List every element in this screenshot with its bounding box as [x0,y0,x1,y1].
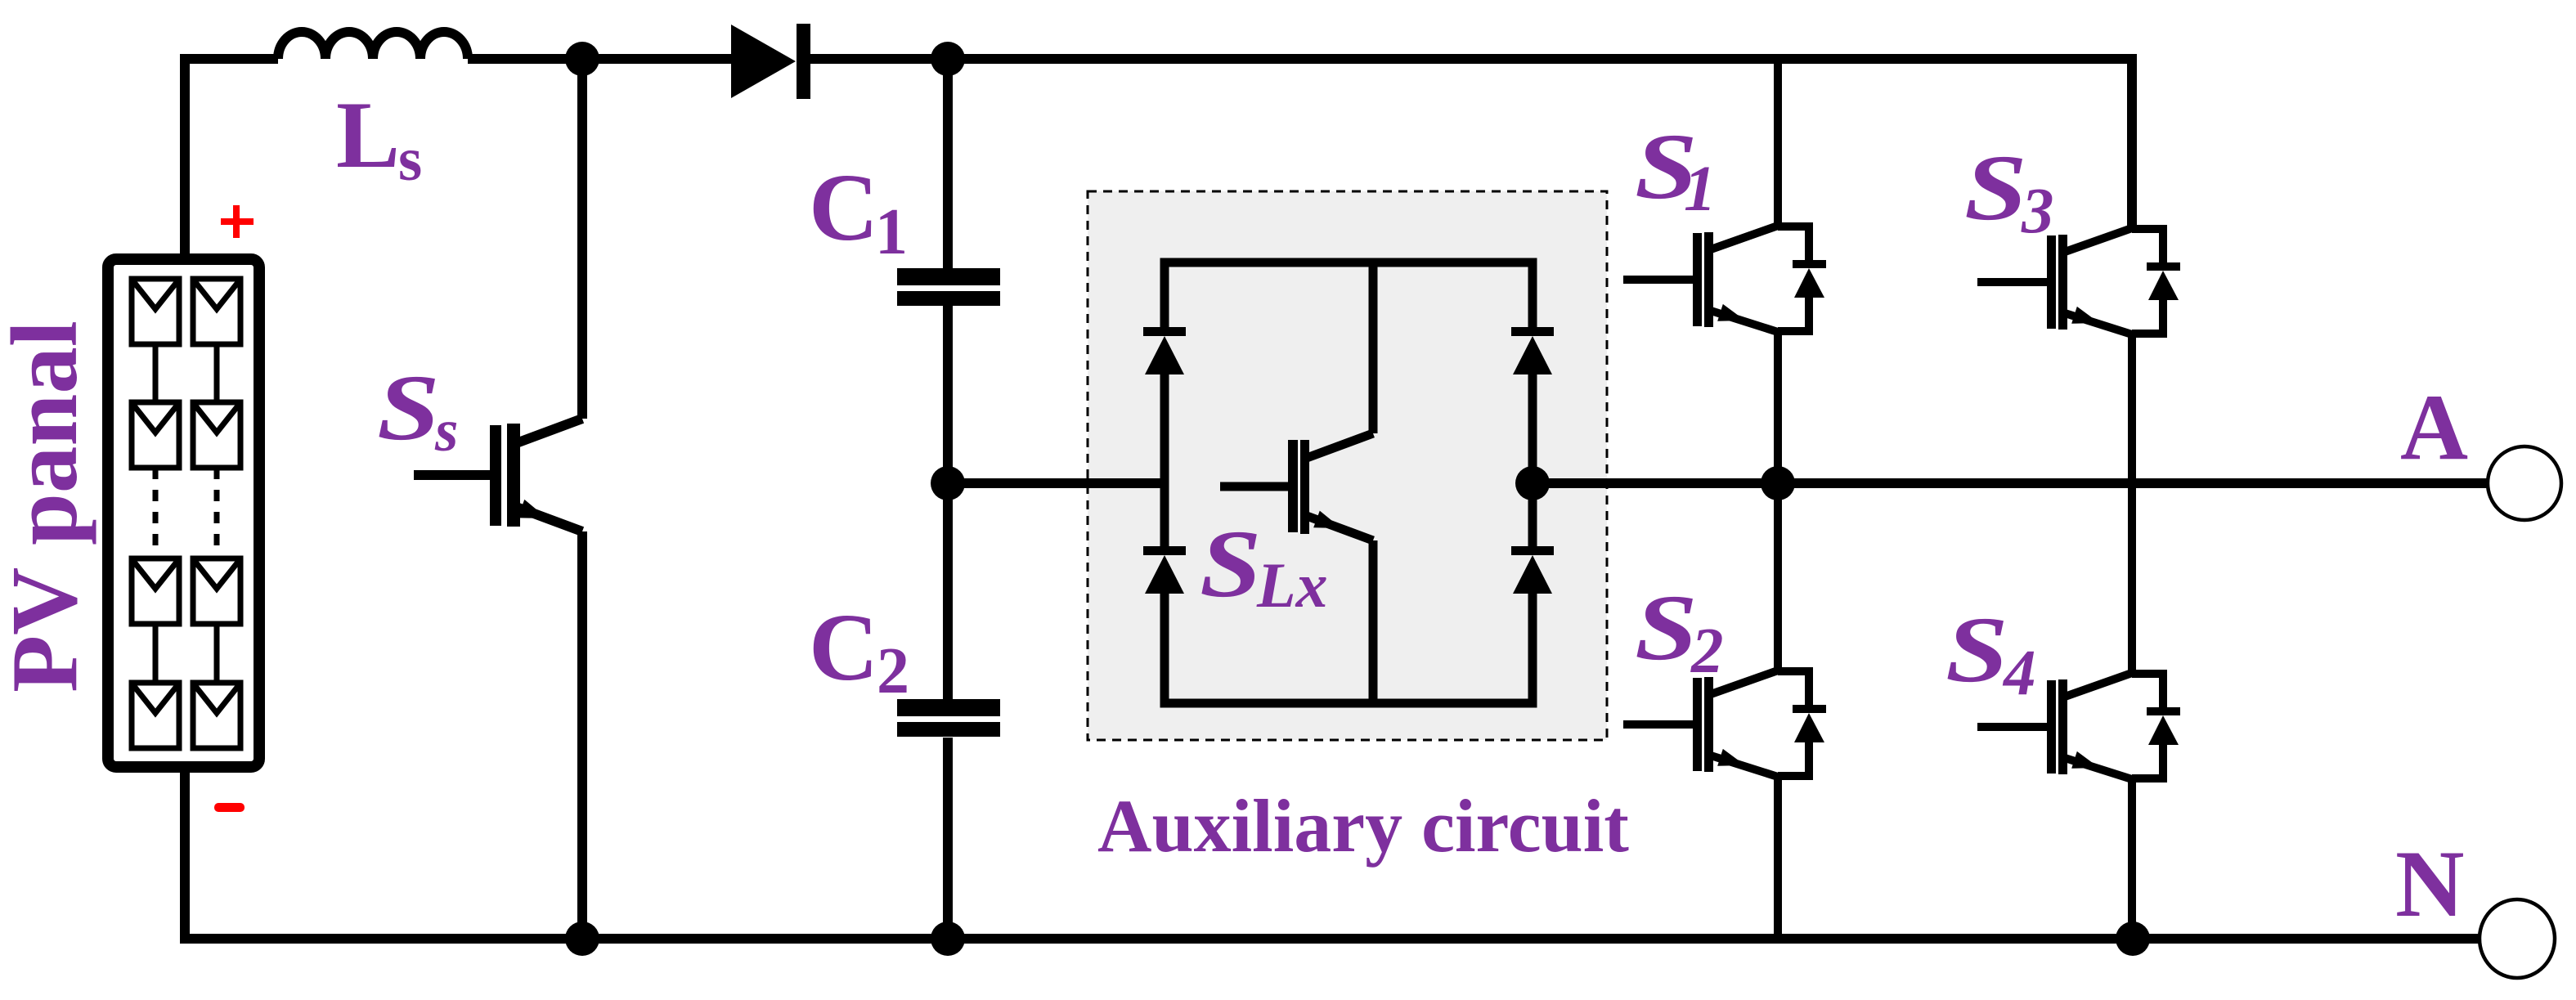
PV panel [108,259,259,767]
wire S1 emitter to node A [1774,330,1782,483]
svg-text:L: L [336,83,400,188]
wire Ss collector to node1 [577,59,587,419]
wire C2 top [943,483,953,699]
svg-text:A: A [2400,375,2468,479]
diode D (boost diode) [731,24,810,99]
wire aux left branch middle [1160,374,1169,546]
wire SLx collector to aux top rail [1369,262,1378,433]
wire diode cathode to S3 leg (top bus right) [810,59,2132,230]
wire S1 collector to top bus [1774,59,1782,227]
svg-text:C: C [809,154,878,261]
transistor S2 (bridge lower-left IGBT) [1623,483,1826,939]
terminal A (output circle) [2488,446,2561,520]
PV cell row1 col2 [193,279,240,344]
auxiliary circuit dashed box [1088,191,1607,740]
svg-text:1: 1 [1684,154,1717,225]
transistor S4 (bridge lower-right IGBT) [1977,483,2180,939]
svg-text:Lx: Lx [1256,549,1328,621]
wire PV panel top to inductor (left vertical + top segment) [185,59,278,259]
svg-text:2: 2 [1690,616,1724,687]
PV cell row3 col2 [193,558,240,624]
terminal N (output circle) [2480,899,2555,978]
transistor Ss (boost switch IGBT) [414,59,582,939]
junction Ss emitter / bottom bus [565,922,599,956]
wire SLx emitter to aux bottom rail [1369,540,1378,703]
junction S4 emitter / bottom bus [2116,922,2150,956]
svg-text:S: S [1964,137,2027,240]
wire S4 emitter to bottom bus [2128,778,2136,939]
transistor S1 (bridge upper-left IGBT) [1623,59,1826,483]
junction C2 / bottom bus [931,922,965,956]
diode Da3 (aux right upper) [1511,327,1554,374]
diode Da1 (aux left upper) [1143,327,1186,374]
wire C1 top branch [943,59,953,270]
svg-text:1: 1 [875,196,908,268]
diode Da2 (aux left lower) [1143,546,1186,594]
junction node2 (top bus / C1) [931,42,965,76]
wire C2 bottom to bottom bus [943,738,953,939]
diode DS3 (S3 antiparallel) [2132,229,2163,262]
wire cell connectors solid [153,344,159,402]
transistor S3 (bridge upper-right IGBT) [1977,147,2180,483]
svg-text:S: S [1635,576,1698,680]
svg-text:C: C [809,594,878,701]
PV cell row2 col2 [193,402,240,468]
svg-text:S: S [377,357,440,460]
wire Ss emitter to bottom bus [577,531,587,939]
svg-text:s: s [434,397,458,464]
svg-text:s: s [398,126,422,194]
wire aux right branch middle [1528,374,1537,546]
wire aux bottom rail [1165,592,1533,703]
wire cell connectors dashed [153,468,159,558]
PV cell row1 col1 [132,279,179,344]
svg-text:N: N [2395,832,2465,937]
wire S3 collector to top bus corner [2128,147,2136,230]
svg-text:4: 4 [2002,638,2036,709]
transistor SLx (auxiliary IGBT) [1220,262,1373,703]
junction node M (C1/C2 midpoint) [931,466,965,500]
svg-text:2: 2 [877,635,909,707]
wire S2 collector to node A [1774,483,1782,672]
inductor Ls [278,32,468,59]
diode DS1 (S1 antiparallel) [1778,226,1809,260]
node - (negative terminal mark) [214,803,245,812]
svg-text:Auxiliary circuit: Auxiliary circuit [1097,784,1629,868]
capacitor C1 [897,268,1000,306]
junction node1 (top bus / Ss) [565,42,599,76]
wire PV panel bottom + bottom bus [185,767,2480,939]
wire mid node to auxiliary circuit left branch [948,478,1165,488]
svg-text:3: 3 [2021,176,2054,247]
svg-text:S: S [1945,599,2008,702]
capacitor C2 [897,699,1000,737]
junction aux right branch / A line [1515,466,1550,500]
diode DS2 (S2 antiparallel) [1778,671,1809,705]
wire inductor to diode anode (top bus left) [468,54,731,64]
PV cell row4 col1 [132,683,179,748]
PV cell row2 col1 [132,402,179,468]
svg-text:S: S [1200,510,1261,617]
wire C1 bottom to mid node [943,306,953,483]
wire S4 collector to A line [2128,483,2136,675]
PV cell row4 col2 [193,683,240,748]
diode DS4 (S4 antiparallel) [2132,674,2163,707]
wire aux top rail [1165,262,1533,331]
wire A line from aux right branch to terminal A [1533,478,2488,488]
node + (positive terminal mark) [221,205,254,238]
junction node A (S1/S2 midpoint) [1761,466,1795,500]
PV cell row3 col1 [132,558,179,624]
wire S2 emitter to bottom bus [1774,775,1782,939]
diode Da4 (aux right lower) [1511,546,1554,594]
svg-text:PV panal: PV panal [0,321,96,693]
wire S3 emitter through A line [2128,333,2136,483]
